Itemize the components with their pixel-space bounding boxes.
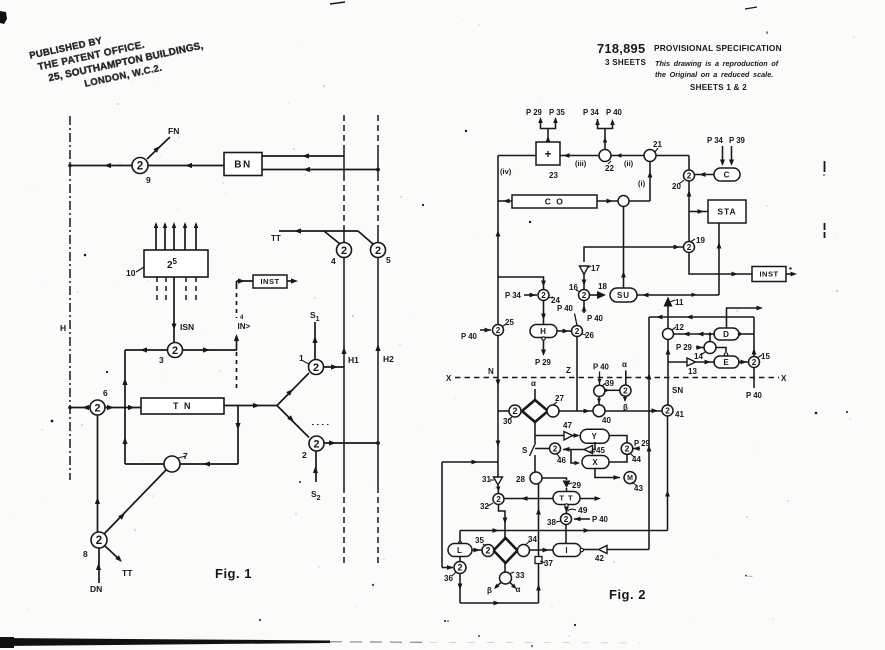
wire 44 to X [609, 454, 627, 462]
arrow into STA [698, 209, 705, 214]
speck fig1 c [106, 371, 108, 373]
lead 19 [690, 239, 695, 242]
wire 36 down [459, 573, 461, 603]
svg-text:2: 2 [541, 291, 546, 300]
node 32 circle [493, 494, 504, 505]
arrow DN up [96, 563, 101, 570]
svg-text:2: 2 [302, 450, 307, 460]
svg-text:X: X [446, 374, 452, 383]
wire 13 to E [696, 361, 716, 363]
svg-text:2: 2 [687, 171, 692, 180]
triangle 45 [584, 446, 593, 454]
corner mark top-left [0, 11, 7, 24]
svg-text:STA: STA [717, 207, 736, 217]
arrow TT out [595, 496, 602, 501]
lead 33 [509, 572, 514, 574]
svg-text:(iii): (iii) [575, 159, 587, 168]
wire Y to 44 [609, 436, 627, 444]
arrow STA up [717, 242, 722, 249]
svg-text:8: 8 [83, 549, 88, 559]
wire SU riser [623, 207, 625, 289]
diamond upper [522, 400, 548, 422]
wire 34 to I [529, 549, 553, 551]
wire 47 to Y [573, 435, 579, 437]
svg-text:SN: SN [672, 386, 683, 395]
arrow TN wire b [107, 405, 114, 410]
arrow TT out [115, 555, 122, 562]
svg-text:INST: INST [759, 270, 778, 279]
lead 36 [452, 572, 456, 576]
arrow CO out [607, 199, 614, 204]
arrow SU riser up [621, 271, 626, 278]
svg-text:P 39: P 39 [729, 136, 746, 145]
dashed wires below 2^5 [156, 277, 158, 304]
svg-text:2: 2 [96, 534, 102, 547]
wire TT top [279, 230, 358, 232]
speck dark d [574, 624, 576, 626]
svg-text:2: 2 [575, 327, 580, 336]
svg-text:38: 38 [547, 518, 556, 527]
lead label 7 [178, 456, 186, 458]
wire right loop vertical 754 [753, 317, 755, 357]
lead 17 [587, 266, 591, 268]
wire 31 to 32 [497, 485, 500, 494]
diamond lower [494, 538, 518, 563]
svg-text:2: 2 [172, 345, 178, 357]
svg-text:47: 47 [563, 421, 572, 430]
arrow H P29 [541, 350, 546, 357]
wire node6 to node8 [97, 415, 99, 532]
arrow loop left up1 [122, 378, 127, 385]
svg-text:D: D [723, 330, 730, 339]
big arrow 18 [597, 291, 606, 299]
lead 38 [556, 521, 561, 522]
svg-text:•·−: •·− [745, 574, 753, 580]
node 19 circle [684, 242, 695, 253]
svg-text:P 34: P 34 [583, 108, 600, 117]
fork diag up to node1 [277, 373, 309, 406]
arrow ISN down [172, 324, 177, 331]
arrow into INST1 [238, 278, 245, 283]
arrow into 19 [674, 245, 681, 250]
arrow 17-16 down [582, 280, 587, 287]
fork diag down to node2 [277, 406, 309, 438]
wire IN riser dashed below [236, 352, 238, 388]
wire TT out right [580, 498, 597, 500]
svg-text:2: 2 [341, 245, 347, 257]
wire 42 to 649 [607, 549, 649, 551]
svg-text:2: 2 [623, 386, 628, 396]
arrow 36 down [458, 584, 463, 591]
bus 5 vertical [377, 115, 379, 150]
node 46 circle [550, 443, 561, 454]
wire 14 riser [709, 334, 711, 342]
svg-text:6: 6 [103, 388, 108, 398]
wire P40 into 38 [574, 518, 590, 520]
arrow into 41 left [652, 408, 659, 413]
wire X to M [595, 469, 620, 478]
fork wires above plus box [541, 119, 556, 129]
svg-text:2: 2 [564, 515, 569, 524]
lead 26 [582, 334, 586, 335]
wires P34 P39 into C [722, 146, 724, 162]
svg-text:33: 33 [516, 571, 525, 580]
svg-text:2: 2 [752, 358, 757, 367]
svg-text:DN: DN [90, 584, 102, 594]
lead 46 [557, 454, 560, 458]
svg-text:SHEETS 1 & 2: SHEETS 1 & 2 [690, 83, 747, 92]
svg-text:2: 2 [496, 326, 501, 335]
svg-text:P 35: P 35 [549, 108, 566, 117]
svg-text:2: 2 [457, 563, 462, 573]
wire STA down [718, 223, 720, 295]
arrow 531 a [493, 528, 500, 533]
node TT bottom small [565, 504, 568, 507]
svg-text:(ii): (ii) [624, 159, 634, 168]
lead 20 [679, 180, 684, 184]
svg-text:12: 12 [675, 323, 684, 332]
svg-text:ISN: ISN [180, 322, 194, 332]
wire Y to 45 [593, 442, 596, 450]
arrow 13 E [705, 360, 712, 365]
arrow loop left up2 [122, 437, 127, 444]
wire 20 to 19 [688, 181, 690, 243]
diag node7 to node8 [104, 470, 166, 534]
svg-text:C O: C O [545, 197, 565, 207]
svg-text:β: β [487, 586, 492, 595]
speck mid page b [529, 221, 531, 223]
wire diag to node 5 [358, 231, 373, 244]
node E top small [724, 353, 727, 356]
wire 29 to TT [566, 488, 568, 492]
svg-text:15: 15 [761, 352, 770, 361]
wire S2 [315, 451, 317, 482]
wire IN riser solid [236, 336, 238, 350]
svg-text:T T: T T [559, 494, 573, 503]
wire 39 to 40 [598, 397, 600, 405]
wire INST lead [237, 280, 254, 282]
arrow CO left [503, 199, 510, 204]
junction BN bottom line5 [376, 168, 380, 172]
bus H dash-dot line [69, 116, 71, 480]
arrow P34 C [720, 160, 725, 167]
svg-text:37: 37 [544, 559, 553, 568]
svg-text:2: 2 [553, 444, 558, 453]
arrow P40 38 [574, 517, 581, 522]
arrow 20-19 up [687, 190, 692, 197]
svg-text:TT: TT [271, 234, 281, 243]
svg-text:14: 14 [694, 352, 703, 361]
wire E to 15 [738, 361, 749, 363]
wire switch to 28 [534, 455, 536, 472]
box INST fig2 [752, 267, 786, 282]
lead 11 [670, 300, 675, 302]
arrow on main wire mid [185, 163, 192, 168]
svg-text:H1: H1 [348, 355, 359, 365]
oval D [714, 328, 739, 340]
svg-text:2: 2 [94, 402, 100, 414]
wire 38 to I [565, 525, 567, 544]
triangle 42 [599, 546, 608, 554]
arrow S1 up [312, 336, 317, 343]
lead 49 [568, 509, 576, 511]
svg-text:M: M [627, 475, 633, 482]
wire TT out diag [105, 546, 120, 560]
wire TT to 38 [566, 507, 568, 514]
wire top main [498, 155, 689, 157]
arrow D to 12 a [683, 332, 690, 337]
oval H [530, 325, 557, 338]
wire BN out bottom [262, 169, 378, 171]
lead 34 [525, 541, 530, 545]
svg-text:H: H [60, 323, 66, 333]
wire 45 to 46 [563, 449, 584, 451]
arrow 649 up b [647, 445, 652, 452]
wire INST2 out [786, 273, 792, 275]
loop left wire [124, 350, 126, 464]
node 36 circle [454, 562, 466, 574]
lead 45 [590, 451, 595, 452]
svg-text:23: 23 [549, 171, 558, 180]
node 24 circle [538, 290, 549, 301]
arrow TN out [253, 403, 260, 408]
wire 16 P40 down [583, 301, 585, 314]
wire FN diagonal [147, 137, 170, 159]
arrow beta down [623, 397, 627, 402]
node I right small [580, 548, 583, 551]
arrow fork up [286, 389, 293, 396]
wire row 411 [498, 410, 510, 412]
node 9 circle [132, 158, 148, 174]
node 27 circle [547, 405, 559, 417]
oval C [714, 168, 740, 181]
arrow P40 25 [485, 328, 492, 333]
svg-text:3 SHEETS: 3 SHEETS [605, 58, 646, 67]
wire into STA [689, 211, 708, 213]
lead label 1 [303, 361, 309, 364]
wire bottom loop [460, 602, 539, 604]
svg-text:2: 2 [687, 243, 692, 252]
svg-text:2: 2 [137, 160, 143, 173]
arrow plus riser up [546, 136, 550, 142]
svg-text:PROVISIONAL SPECIFICATION: PROVISIONAL SPECIFICATION [654, 43, 782, 53]
arrow node2 H2 [329, 440, 336, 445]
switch S stroke [530, 443, 536, 456]
wire main to BN [70, 165, 225, 167]
node 8 circle [91, 532, 107, 548]
oval SU [610, 288, 637, 302]
arrow SN up [666, 348, 671, 355]
arrow loop right down [235, 423, 240, 430]
node 3 circle [168, 343, 183, 358]
box BN [224, 153, 262, 176]
node 2 circle [309, 436, 324, 451]
box TN [141, 398, 224, 414]
arrow E 15 [741, 360, 748, 365]
svg-text:P 40: P 40 [587, 314, 604, 323]
svg-text:26: 26 [585, 331, 594, 340]
svg-text:E: E [723, 358, 729, 367]
smudge dots near node 2 [312, 424, 332, 426]
wire S1 [314, 322, 316, 359]
wire alpha upper [534, 389, 536, 400]
arrow bottom loop [494, 601, 501, 606]
svg-text:P 40: P 40 [592, 515, 609, 524]
svg-text:19: 19 [696, 236, 705, 245]
svg-text:2: 2 [665, 406, 670, 415]
triangle 11 filled [664, 297, 673, 307]
arrow into 22 right [616, 153, 622, 157]
svg-text:P 40: P 40 [606, 108, 623, 117]
svg-text:This drawing is a reproduction: This drawing is a reproduction of [655, 59, 780, 68]
svg-text:P 29: P 29 [535, 358, 552, 367]
speck fig1 b [84, 254, 87, 257]
svg-text:45: 45 [596, 446, 605, 455]
node M circle [624, 472, 636, 484]
wire node3 left [125, 349, 168, 351]
wire INST1 out [287, 280, 293, 282]
node 21 circle [644, 150, 656, 162]
wire i riser [649, 162, 651, 202]
svg-text:TT: TT [122, 568, 133, 578]
speck bottom a [444, 620, 446, 622]
svg-text:3: 3 [159, 355, 164, 365]
arrow on SU wire mid [692, 293, 698, 297]
arrow 32 TT [521, 496, 528, 501]
wire L riser [459, 531, 461, 542]
triangle 13 [687, 358, 696, 366]
wire D right [738, 333, 754, 335]
svg-text:H: H [540, 327, 547, 336]
svg-text:FN: FN [168, 126, 179, 136]
wire branch to 24 [498, 277, 544, 289]
arrow into 40 [584, 409, 591, 414]
svg-text:P 29: P 29 [634, 439, 651, 448]
stray mark top-right-1 [745, 7, 757, 9]
dashed section line X-X [455, 377, 779, 379]
wire D loop top [727, 308, 760, 328]
arrow H 26 [563, 329, 570, 334]
svg-text:34: 34 [528, 535, 537, 544]
svg-text:Fig. 1: Fig. 1 [215, 566, 252, 581]
wire node3 right [183, 349, 238, 351]
speck dark f [299, 481, 301, 483]
arrow beta 33 [494, 584, 499, 589]
svg-text:the Original on a reduced scal: the Original on a reduced scale. [655, 70, 773, 79]
arrow into 36 [447, 565, 454, 570]
svg-text:10: 10 [126, 268, 136, 278]
wire 41 down [667, 416, 669, 531]
stray mark top-center [330, 2, 345, 4]
junction 14 riser [709, 333, 712, 336]
wire P40 39 [599, 372, 601, 385]
svg-text:P 40: P 40 [461, 332, 478, 341]
speck 790 268 [789, 267, 791, 269]
wire DN [98, 548, 100, 583]
svg-text:13: 13 [688, 367, 697, 376]
oval I [553, 544, 581, 557]
svg-text:T N: T N [173, 401, 192, 411]
speck mid page a [465, 130, 467, 132]
triangle 47 [564, 432, 573, 441]
wire 12 to D [674, 333, 716, 335]
svg-text:42: 42 [595, 554, 604, 563]
wire branch 46 [535, 448, 550, 450]
arrow 32 jog down [503, 518, 508, 525]
arrow 7-8 diag [118, 513, 125, 520]
arrow 317 a [656, 315, 663, 320]
svg-text:9: 9 [146, 175, 151, 185]
wire into 13 [668, 361, 687, 363]
arrow iv down low [496, 441, 501, 448]
node 30 circle [509, 405, 521, 417]
wire C to 20 [694, 174, 714, 176]
svg-text:P 34: P 34 [505, 291, 522, 300]
wire left loop 442 vertical [441, 462, 443, 568]
arrow 37 stem up [536, 584, 541, 591]
wire P29 into 44 [633, 448, 640, 450]
wire CO to node [597, 200, 618, 202]
wire 33 stem [504, 562, 506, 572]
lead 29 [568, 483, 572, 484]
node 26 circle [572, 326, 583, 337]
lead 16 [576, 290, 580, 292]
lead 31 [490, 479, 494, 481]
speck dark b [372, 584, 374, 586]
arrow iv down mid [496, 380, 501, 387]
arrow into X left [575, 461, 581, 465]
svg-text:5: 5 [386, 255, 391, 265]
node 1 circle [309, 360, 324, 375]
fork wires above node 22 [598, 119, 613, 129]
wire TN out [224, 405, 277, 407]
node 5 circle [371, 243, 386, 258]
arrow P29 tip [538, 117, 543, 123]
wire 11 to 12 [667, 307, 669, 329]
node after CO circle [618, 196, 629, 207]
wire P34 into 24 [524, 294, 537, 296]
wire 19 to 17 [584, 247, 684, 262]
svg-text:39: 39 [605, 379, 614, 388]
wire SU to STA riser [637, 294, 719, 296]
wire 15 P40 [753, 367, 755, 388]
wire iv vertical [497, 156, 499, 478]
svg-text:2: 2 [313, 438, 319, 450]
svg-text:18: 18 [598, 282, 607, 291]
wire H to node6 to TN [70, 407, 141, 409]
wire left loop vertical 649 [648, 317, 650, 550]
svg-text:IN>: IN> [238, 322, 251, 331]
wire 40 to 41 [605, 410, 663, 412]
arrow 531 b [584, 528, 591, 533]
svg-text:H2: H2 [383, 354, 394, 364]
oval L [448, 544, 472, 557]
arrow fork down [287, 415, 294, 422]
junction dot 39 [604, 389, 607, 392]
node H bottom small [542, 337, 545, 340]
svg-text:(i): (i) [638, 179, 646, 188]
arrow 6-8 up [95, 497, 100, 504]
box STA [708, 200, 746, 223]
node L top small [458, 542, 461, 545]
svg-text:25: 25 [505, 318, 514, 327]
arrow P40 39 down [598, 379, 602, 384]
bottom rule faint tail [330, 641, 430, 644]
svg-text:49: 49 [578, 505, 588, 515]
junction D right [738, 332, 741, 335]
arrow INST1 out [291, 278, 298, 283]
arrow P34 24 [530, 293, 537, 298]
